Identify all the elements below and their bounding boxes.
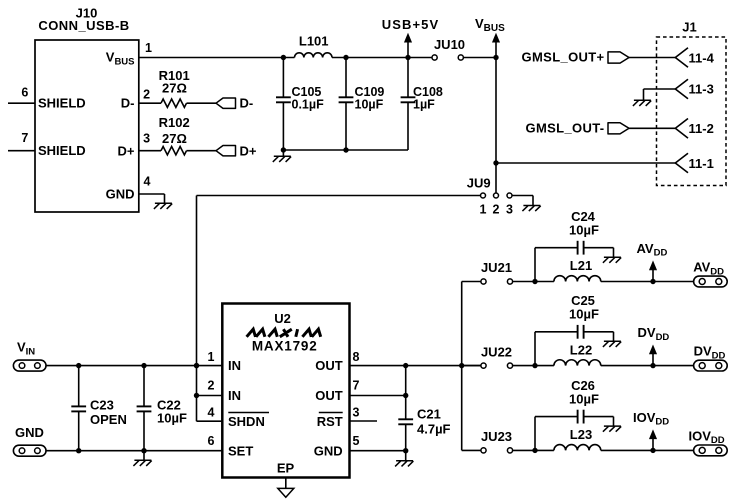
tag D+ [216,146,236,156]
inductor L22 [554,360,601,366]
jumper JU22 pin 2 [507,363,512,368]
svg-text:GND: GND [106,186,135,201]
wire long net U2 IN to JU9 pin 1 [197,195,481,197]
ground at C21 [396,460,413,462]
wire C26 right lead to ground [584,416,614,418]
U2 RST overline [319,412,343,414]
jumper JU9 pin 2 [494,193,499,198]
op-amp U2 MAX1792 box [222,304,349,478]
wire JU10 to VBUS [463,57,496,59]
wire U2 GND pin 5 stub [350,450,406,452]
svg-text:11-3: 11-3 [689,82,714,97]
svg-text:11-4: 11-4 [689,50,715,65]
svg-text:JU9: JU9 [467,176,491,191]
inductor L101 [295,53,333,58]
connector IOVDD pad [694,445,728,456]
svg-text:3: 3 [506,202,513,216]
svg-text:L21: L21 [570,258,592,273]
wire L101 to JU10 [332,57,432,59]
node C23 top junction [76,363,81,368]
capacitor C108 [407,58,409,98]
node C21 bottom junction [403,448,408,453]
wire to U2 pin 4 SHDN [197,420,223,422]
wire C25 branch left lead [535,331,578,333]
wire J10 pin 3 to R102 [139,150,161,152]
svg-text:JU23: JU23 [481,429,512,444]
svg-text:8: 8 [353,350,360,364]
capacitor C109 [345,58,347,98]
svg-text:IN: IN [228,358,241,373]
node C23 bottom junction [76,448,81,453]
node C26 branch junction [532,448,537,453]
svg-text:J1: J1 [682,20,696,35]
svg-text:CONN_USB-B: CONN_USB-B [38,18,129,33]
jumper JU21 pin 2 [507,279,512,284]
power DVDD arrow [652,353,654,365]
svg-text:4.7µF: 4.7µF [417,422,451,437]
svg-text:L23: L23 [570,427,592,442]
wire JU22 to L22 [513,365,554,367]
svg-text:GMSL_OUT+: GMSL_OUT+ [522,50,605,65]
power IOVDD arrow [652,438,654,450]
wire VIN to U2 IN [46,365,222,367]
svg-text:10µF: 10µF [569,307,599,322]
wire branch to JU21 [462,281,481,283]
ground at filter rail [274,155,291,157]
node OUT7 to C21 junction [403,393,408,398]
node U2 IN pin 2 junction [194,393,199,398]
wire GMSL_OUT+ to J1 pin 11-4 [629,57,675,59]
jumper JU23 pin 2 [507,448,512,453]
wire J1 pin 11-3 to ground [644,88,676,90]
svg-text:2: 2 [208,379,215,393]
svg-text:11-2: 11-2 [689,121,714,136]
capacitor C25 [577,325,579,339]
svg-text:4: 4 [144,175,151,189]
svg-text:JU22: JU22 [481,344,512,359]
svg-text:JU21: JU21 [481,260,512,275]
wire J10 pin 1 to L101 [139,57,295,59]
svg-text:D-: D- [121,96,135,111]
svg-text:RST: RST [317,414,343,429]
power VBUS arrow [495,42,497,58]
wire C24 right lead to ground [584,247,614,249]
node branch vertical junction [459,363,464,368]
wire J10 pin 4 to ground [139,193,165,195]
node AVDD arrow junction [650,279,655,284]
svg-text:L22: L22 [570,342,592,357]
resistor R102 [161,147,187,155]
wire U2 RST pin 3 stub [350,420,378,422]
svg-text:2: 2 [493,202,500,216]
wire C26 branch left lead [535,416,578,418]
svg-text:SHDN: SHDN [228,414,265,429]
tag GMSL_OUT- [608,123,629,134]
connector DVDD pad [694,360,728,371]
jumper JU23 pin 1 [481,448,486,453]
wire VBUS to J1 pin 11-1 [496,162,675,164]
svg-text:U2: U2 [274,311,291,326]
svg-text:1: 1 [145,41,152,55]
svg-text:OPEN: OPEN [90,412,127,427]
capacitor C105 [282,58,284,98]
J1 pin 11-1 arrow [675,153,688,173]
jumper JU10 pin 1 [432,55,437,60]
wire to U2 pin 2 [197,395,223,397]
svg-text:MAX1792: MAX1792 [252,338,318,353]
node VBUS to 11-1 junction [493,160,498,165]
inductor L21 [554,276,601,282]
wire filter bottom rail [283,149,408,151]
wire C22 bottom to ground [143,451,145,461]
svg-text:0.1µF: 0.1µF [292,97,325,111]
wire GMSL_OUT- to J1 pin 11-2 [629,127,675,129]
node C109 bottom junction [343,147,348,152]
node DVDD arrow junction [650,363,655,368]
capacitor C24 [577,241,579,255]
node C25 branch junction [532,363,537,368]
wire EP stub [285,478,287,489]
svg-text:JU10: JU10 [434,37,465,52]
svg-text:D+: D+ [118,143,135,158]
ground at J10 pin 4 [155,202,172,204]
svg-text:10µF: 10µF [569,223,599,238]
wire J10 pin 7 stub [8,150,35,152]
wire JU23 to L23 [513,449,554,451]
connector AVDD pad [694,276,728,287]
ground at JU9 pin 3 [523,205,540,207]
node VBUS junction [493,55,498,60]
node C22 top junction [141,363,146,368]
wire long net vertical to U2 IN [196,196,198,422]
jumper JU21 pin 1 [481,279,486,284]
J1 pin 11-2 arrow [675,119,688,139]
J1 pin 11-3 arrow [675,79,688,99]
wire output branch vertical [461,282,463,451]
capacitor C23 [78,366,80,407]
wire GND to U2 SET [46,450,222,452]
svg-text:10µF: 10µF [355,97,384,111]
power ground EP triangle [278,488,294,497]
wire JU21 to L21 [513,281,554,283]
ground at C26 [604,425,621,427]
wire R101 to D- tag [187,102,217,104]
ground at input rail [134,459,151,461]
node C21 top junction [403,363,408,368]
svg-text:L101: L101 [299,34,329,49]
svg-text:C21: C21 [417,406,441,421]
svg-text:C23: C23 [90,397,114,412]
svg-text:2: 2 [143,88,150,102]
wire branch to JU23 [462,449,481,451]
jumper JU22 pin 1 [481,363,486,368]
svg-text:OUT: OUT [315,358,343,373]
svg-text:SHIELD: SHIELD [38,143,86,158]
node IOVDD arrow junction [650,448,655,453]
svg-text:R102: R102 [159,115,190,130]
wire VBUS vertical [495,58,497,193]
svg-text:27Ω: 27Ω [162,81,187,96]
tag GMSL_OUT+ [608,52,629,63]
svg-text:OUT: OUT [315,388,343,403]
node IN vertical junction [194,363,199,368]
wire JU9 pin 3 to ground [512,195,533,197]
wire J10 pin 6 stub [8,102,35,104]
svg-text:GND: GND [314,443,343,458]
wire branch to JU22 [462,365,481,367]
wire L21 to AVDD pad [601,281,694,283]
svg-text:SET: SET [228,443,253,458]
connector VIN pad [13,360,46,371]
svg-text:10µF: 10µF [157,410,187,425]
J1 pin 11-4 arrow [675,48,688,68]
wire C26 branch up [534,417,536,451]
svg-text:10µF: 10µF [569,391,599,406]
svg-text:1: 1 [480,202,487,216]
wire filter rail to ground [282,150,284,156]
node USB+5V junction [405,55,410,60]
svg-text:SHIELD: SHIELD [38,96,86,111]
node C105 bottom junction [281,147,286,152]
capacitor C26 [577,410,579,424]
jumper JU10 pin 2 [458,55,463,60]
svg-text:D-: D- [240,96,254,111]
svg-text:GND: GND [15,425,44,440]
svg-text:5: 5 [353,434,360,448]
wire C25 branch up [534,332,536,366]
node C24 branch junction [532,279,537,284]
svg-text:6: 6 [208,434,215,448]
ground at C25 [604,340,621,342]
svg-text:3: 3 [143,132,150,146]
resistor R101 [161,99,187,107]
svg-text:1: 1 [208,350,215,364]
wire C21 bottom to ground [405,451,407,461]
U2 SHDN overline [228,412,269,414]
connector J1 dashed box [657,37,727,186]
node C22 bottom junction [141,448,146,453]
inductor L23 [554,445,601,451]
power AVDD arrow [652,269,654,281]
ground at J1 pin 11-3 [634,99,651,101]
wire C25 right lead to ground [584,331,614,333]
jumper JU9 pin 3 [507,193,512,198]
ground at C24 [604,256,621,258]
wire C24 branch left lead [535,247,578,249]
svg-text:IN: IN [228,388,241,403]
connector J10 CONN_USB-B box [35,40,139,212]
capacitor C21 [405,366,407,420]
svg-text:USB+5V: USB+5V [382,17,440,32]
svg-text:GMSL_OUT-: GMSL_OUT- [526,121,605,136]
svg-text:EP: EP [277,461,295,476]
svg-text:D+: D+ [240,143,257,158]
logo MAXIM [247,329,321,337]
tag D- [216,98,236,108]
svg-text:11-1: 11-1 [689,156,714,171]
capacitor C22 [143,366,145,407]
wire R102 to D+ tag [187,150,217,152]
wire J10 pin 2 to R101 [139,102,161,104]
wire L23 to IOVDD pad [601,449,694,451]
node C105 top junction [281,55,286,60]
wire U2 OUT pin 7 stub [350,395,406,397]
svg-text:4: 4 [208,406,215,420]
svg-text:7: 7 [21,131,28,145]
wire L22 to DVDD pad [601,365,694,367]
node U2 IN pin 1 junction [194,363,199,368]
power USB+5V arrow [407,42,409,58]
jumper JU9 pin 1 [481,193,486,198]
svg-text:6: 6 [21,86,28,100]
svg-text:3: 3 [353,406,360,420]
node C109 top junction [343,55,348,60]
svg-text:1µF: 1µF [413,97,435,111]
connector GND pad [13,445,46,456]
svg-text:7: 7 [353,379,360,393]
wire C24 branch up [534,248,536,282]
wire U2 OUT pin 8 net [350,365,481,367]
svg-text:27Ω: 27Ω [162,131,187,146]
